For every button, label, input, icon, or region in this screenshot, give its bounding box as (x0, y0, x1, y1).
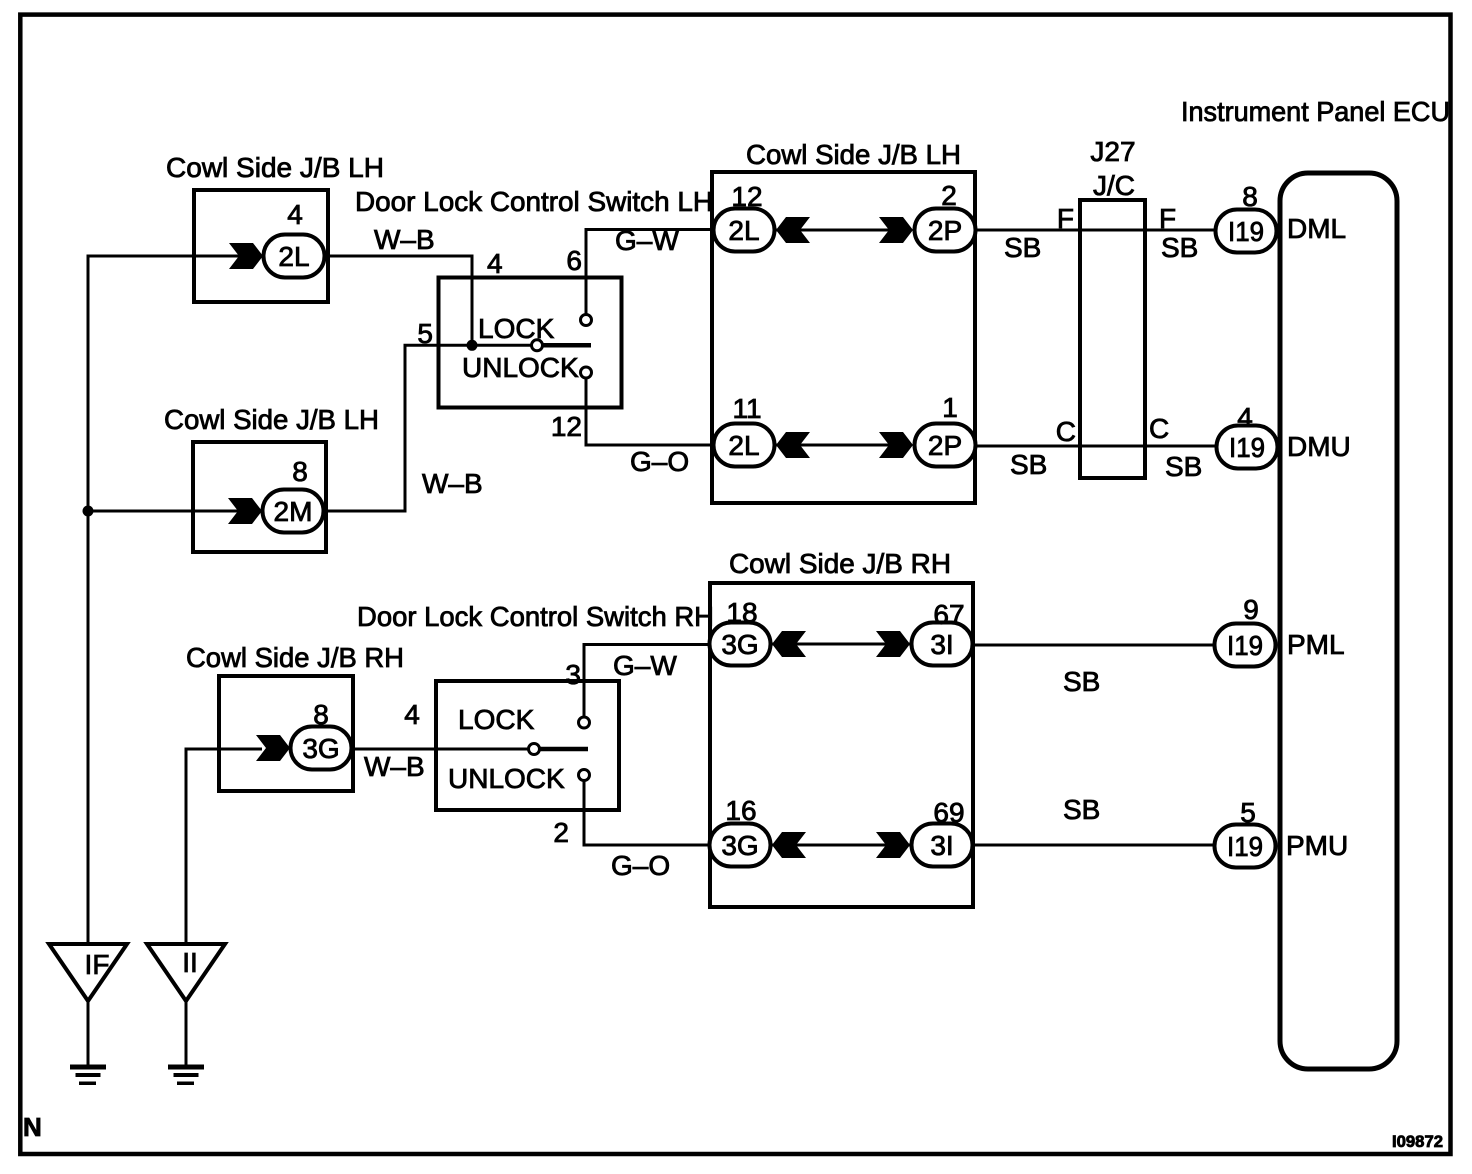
wire: trunk 2 from 3G connector down to ground II (186, 749, 262, 944)
svg-text:Cowl Side J/B RH: Cowl Side J/B RH (186, 642, 404, 673)
svg-text:I19: I19 (1228, 216, 1264, 247)
svg-text:UNLOCK: UNLOCK (462, 352, 579, 383)
connector oval I19 pin 4 DMU (1217, 426, 1278, 469)
svg-text:12: 12 (731, 181, 762, 212)
arrow pair row2 left (776, 432, 810, 458)
svg-text:Cowl Side J/B LH: Cowl Side J/B LH (166, 152, 384, 183)
switch S1 contacts: common pole junction + lever (532, 340, 543, 351)
junction block: Cowl Side J/B LH big box (712, 172, 975, 503)
svg-text:3G: 3G (721, 830, 758, 861)
svg-text:16: 16 (725, 795, 756, 826)
junction block: Cowl Side J/B RH (3G) box (219, 676, 353, 791)
ground IF: lead wire (87, 999, 90, 1066)
svg-text:5: 5 (1240, 797, 1256, 828)
connector oval 3I pin 67 (J/B RH row 1) (912, 623, 973, 666)
connector oval 2P pin 1 (J/B LH row 2) (915, 424, 976, 467)
svg-text:SB: SB (1063, 666, 1100, 697)
svg-text:J/C: J/C (1093, 170, 1135, 201)
switch S2 common pole + lever (529, 744, 540, 755)
svg-text:9: 9 (1243, 594, 1259, 625)
ground II: lead wire (185, 999, 188, 1066)
arrow RH row2 right (876, 832, 910, 858)
wire: J/B RH row 1 internal between connectors (772, 643, 910, 646)
node: junction dot at switch LH pin 4/5 (467, 340, 478, 351)
svg-text:2L: 2L (728, 215, 759, 246)
junction block: Cowl Side J/B LH (2M) box (193, 442, 326, 552)
wire: G-O switch RH pin 2 down to Cowl Side J/B RH 3G(16) (584, 778, 712, 845)
svg-text:G–W: G–W (615, 225, 679, 256)
switch S1 LOCK contact pin 6 (581, 315, 592, 326)
switch S1 UNLOCK contact pin 12 (581, 367, 592, 378)
svg-text:LOCK: LOCK (458, 704, 535, 735)
svg-text:2L: 2L (728, 430, 759, 461)
connector oval 2L pin 12 (J/B LH row 1) (714, 209, 775, 252)
svg-text:2P: 2P (928, 430, 962, 461)
svg-text:J27: J27 (1090, 136, 1135, 167)
wire: SB from 3I(67) to I19 PML (972, 644, 1216, 647)
svg-text:SB: SB (1004, 232, 1041, 263)
svg-text:W–B: W–B (422, 468, 483, 499)
wire: J/B LH row 1 internal between connectors (776, 229, 912, 232)
wire: SB from 2P(1) through J27 J/C to I19 DMU (974, 445, 1218, 448)
svg-text:C: C (1056, 416, 1076, 447)
svg-text:3I: 3I (930, 629, 953, 660)
svg-text:I19: I19 (1229, 432, 1265, 463)
svg-text:C: C (1149, 413, 1169, 444)
arrow pair row2 right (879, 432, 913, 458)
ground IF: earth bars (70, 1065, 106, 1070)
svg-text:11: 11 (732, 393, 761, 424)
svg-text:4: 4 (487, 248, 503, 279)
wire: J/B RH row 2 internal between connectors (772, 844, 910, 847)
connector oval I19 pin 9 PML (1215, 624, 1276, 667)
connector oval I19 pin 8 DML (1216, 210, 1277, 253)
wire: W-B from 3G oval to switch RH common (352, 748, 528, 751)
svg-text:2M: 2M (274, 496, 313, 527)
svg-text:2: 2 (941, 180, 957, 211)
switch S2 LOCK contact pin 3 (579, 717, 590, 728)
svg-text:Cowl Side J/B LH: Cowl Side J/B LH (164, 404, 379, 435)
wire: J/B LH row 2 internal between connectors (776, 444, 912, 447)
wire: G-O switch LH pin 12 down to Cowl Side J/B LH 2L(11) (586, 376, 716, 445)
svg-text:Cowl Side J/B LH: Cowl Side J/B LH (746, 139, 961, 170)
svg-text:SB: SB (1010, 449, 1047, 480)
svg-text:3G: 3G (721, 629, 758, 660)
junction block: Cowl Side J/B RH big box (710, 583, 973, 907)
svg-text:2: 2 (553, 817, 569, 848)
svg-text:G–W: G–W (613, 650, 677, 681)
svg-text:I19: I19 (1227, 630, 1263, 661)
switch S1: Door Lock Control Switch LH box (439, 278, 622, 408)
svg-text:DML: DML (1287, 213, 1346, 244)
svg-text:67: 67 (933, 599, 964, 630)
svg-text:8: 8 (313, 699, 329, 730)
svg-text:G–O: G–O (630, 446, 689, 477)
switch S2 UNLOCK contact pin 2 (579, 770, 590, 781)
svg-text:Door Lock Control Switch LH: Door Lock Control Switch LH (355, 186, 713, 217)
svg-text:I19: I19 (1227, 831, 1263, 862)
ground II: earth bars (168, 1065, 204, 1070)
switch S2: Door Lock Control Switch RH box (436, 681, 619, 810)
svg-text:Cowl Side J/B RH: Cowl Side J/B RH (729, 548, 951, 579)
connector arrow into 3G (256, 735, 290, 761)
svg-text:Door Lock Control Switch RH: Door Lock Control Switch RH (357, 601, 714, 632)
arrow RH row1 right (876, 631, 910, 657)
svg-text:2L: 2L (278, 241, 309, 272)
svg-text:12: 12 (551, 411, 582, 442)
svg-text:18: 18 (726, 597, 757, 628)
svg-text:PMU: PMU (1286, 830, 1348, 861)
svg-text:F: F (1057, 203, 1074, 234)
svg-text:W–B: W–B (374, 224, 435, 255)
svg-text:IF: IF (85, 949, 110, 980)
wire: SB from 3I(69) to I19 PMU (972, 844, 1216, 847)
svg-text:1: 1 (942, 392, 958, 423)
svg-text:I09872: I09872 (1392, 1132, 1443, 1151)
svg-text:69: 69 (933, 797, 964, 828)
connector arrow into 2M (228, 498, 262, 524)
svg-text:5: 5 (417, 318, 433, 349)
svg-text:SB: SB (1165, 451, 1202, 482)
wire: SB from 2P(2) through J27 J/C to I19 DML (974, 229, 1217, 232)
svg-text:UNLOCK: UNLOCK (448, 763, 565, 794)
ECU: Instrument Panel ECU rounded box (1280, 173, 1397, 1069)
svg-text:3: 3 (565, 659, 581, 690)
wire: G-W switch RH pin 3 up to Cowl Side J/B RH 3G(18) (584, 645, 712, 719)
connector oval 2L (small J/B LH) (264, 235, 325, 278)
svg-text:PML: PML (1287, 629, 1345, 660)
svg-text:LOCK: LOCK (478, 313, 555, 344)
connector oval 2P pin 2 (J/B LH row 1) (915, 209, 976, 252)
connector oval 3G pin 18 (J/B RH row 1) (710, 623, 771, 666)
arrow RH row2 left (772, 832, 806, 858)
junction connector J27 J/C box (1080, 200, 1145, 478)
arrow pair row1 left (points left) (776, 217, 810, 243)
svg-text:8: 8 (292, 456, 308, 487)
svg-text:3I: 3I (930, 830, 953, 861)
wire: trunk to 2M connector (88, 510, 262, 513)
svg-text:W–B: W–B (364, 751, 425, 782)
svg-text:N: N (23, 1112, 42, 1142)
svg-text:4: 4 (404, 699, 420, 730)
svg-text:8: 8 (1242, 181, 1258, 212)
arrow pair row1 right (points right) (879, 217, 913, 243)
wire: trunk from 2L junction block down to ground IF (88, 256, 264, 944)
svg-text:6: 6 (566, 245, 582, 276)
ground II: triangle (147, 944, 225, 1001)
wire: W-B from 2L oval to switch LH pin 4 (324, 256, 472, 345)
wire: G-W switch LH pin 6 up to Cowl Side J/B LH 2L(12) (586, 230, 716, 317)
svg-text:SB: SB (1161, 232, 1198, 263)
connector oval 2L pin 11 (J/B LH row 2) (714, 424, 775, 467)
svg-text:F: F (1159, 203, 1176, 234)
connector oval 3G (small J/B RH) (291, 727, 352, 770)
junction block: Cowl Side J/B LH (2L) box (194, 190, 328, 302)
wire: W-B from 2M oval up to switch LH pin 5 (323, 345, 531, 511)
node A: junction dot on trunk at 2M branch (83, 506, 94, 517)
ground IF: triangle (49, 944, 127, 1001)
connector arrow into 2L (229, 243, 263, 269)
connector oval 2M (small J/B LH) (263, 490, 324, 533)
connector oval 3G pin 16 (J/B RH row 2) (710, 824, 771, 867)
svg-text:G–O: G–O (611, 850, 670, 881)
connector oval 3I pin 69 (J/B RH row 2) (912, 824, 973, 867)
svg-text:II: II (182, 947, 198, 978)
connector oval I19 pin 5 PMU (1215, 825, 1276, 868)
svg-text:4: 4 (287, 199, 303, 230)
svg-text:4: 4 (1237, 402, 1253, 433)
svg-text:SB: SB (1063, 794, 1100, 825)
svg-text:3G: 3G (302, 733, 339, 764)
arrow RH row1 left (772, 631, 806, 657)
svg-text:2P: 2P (928, 215, 962, 246)
svg-text:DMU: DMU (1287, 431, 1351, 462)
svg-text:Instrument Panel ECU: Instrument Panel ECU (1181, 96, 1450, 127)
